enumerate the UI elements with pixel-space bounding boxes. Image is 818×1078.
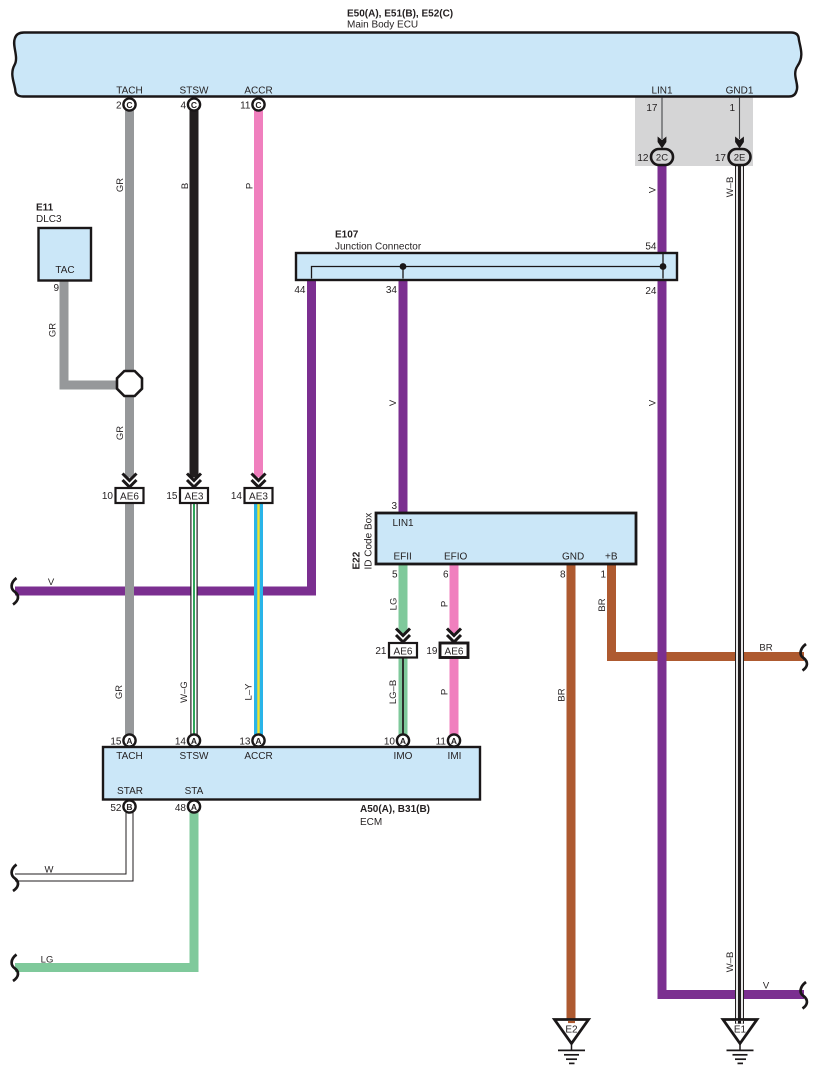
svg-text:ECM: ECM (360, 817, 382, 828)
svg-text:B: B (126, 802, 132, 812)
svg-text:14: 14 (231, 491, 243, 502)
svg-text:5: 5 (392, 570, 398, 581)
arrow into AE3 (B wire) (187, 474, 201, 488)
pin 11 circle A on ECM IMI (448, 734, 460, 746)
wire GR from E11 DLC3 pin 9 to junction (64, 279, 117, 385)
svg-text:E1: E1 (734, 1025, 747, 1036)
svg-text:LG–B: LG–B (388, 680, 399, 704)
wire B from ECU STSW pin 4 to arrow (190, 110, 199, 478)
svg-text:13: 13 (239, 737, 251, 748)
svg-text:ACCR: ACCR (244, 751, 272, 762)
connector oval 2E (729, 149, 751, 165)
wire V from ECU LIN1 pin through E107 pin 54/24 down and right off-page (662, 165, 804, 995)
arrow into AE6 (P wire) (447, 629, 461, 643)
svg-text:LIN1: LIN1 (651, 86, 673, 97)
svg-text:2: 2 (116, 101, 122, 112)
svg-text:E50(A), E51(B), E52(C): E50(A), E51(B), E52(C) (347, 9, 453, 20)
svg-text:A: A (451, 736, 457, 746)
svg-text:GND1: GND1 (726, 86, 754, 97)
svg-text:11: 11 (436, 737, 447, 748)
wire W-G from AE3 to ECM STSW pin 14 (190, 504, 197, 736)
svg-text:10: 10 (384, 737, 396, 748)
svg-text:C: C (255, 100, 261, 110)
svg-text:3: 3 (391, 501, 397, 512)
off-page break right V (801, 982, 807, 1009)
svg-text:E107: E107 (335, 230, 359, 241)
svg-text:BR: BR (557, 688, 568, 701)
off-page break right BR (801, 644, 807, 671)
pin 48 circle A on ECM STA (188, 800, 200, 812)
wire BR from E22 GND pin 8 to ground E2 (567, 564, 576, 1021)
svg-text:2E: 2E (734, 153, 746, 164)
svg-text:L–Y: L–Y (244, 683, 255, 701)
svg-text:A: A (191, 736, 197, 746)
svg-text:1: 1 (729, 103, 735, 114)
box E22 ID Code Box (376, 513, 636, 564)
connector box AE6 pin 19 (440, 643, 468, 658)
pin 13 circle A on ECM ACCR (252, 734, 264, 746)
svg-text:15: 15 (110, 737, 122, 748)
svg-text:STAR: STAR (117, 786, 143, 797)
svg-text:11: 11 (240, 101, 251, 112)
off-page break left V (12, 578, 18, 605)
svg-text:P: P (440, 601, 451, 607)
svg-text:STA: STA (185, 786, 204, 797)
box ECM A50/B31 (103, 747, 480, 800)
svg-text:BR: BR (597, 598, 608, 611)
svg-text:EFIO: EFIO (444, 552, 468, 563)
svg-text:1: 1 (600, 570, 606, 581)
svg-text:E2: E2 (565, 1025, 578, 1036)
connector box AE6 pin 21 (389, 643, 417, 658)
box E11 DLC3 (39, 228, 92, 281)
ground E1 (723, 1020, 757, 1064)
svg-text:21: 21 (375, 646, 387, 657)
wire L-Y from AE3 to ECM ACCR pin 13 (254, 504, 263, 736)
wire GR from AE6 to ECM TACH pin 15 (125, 504, 134, 736)
connector box AE3 pin 15 (180, 488, 208, 503)
pin 2 circle C on ECU TACH (123, 98, 135, 110)
svg-text:V: V (763, 981, 770, 992)
off-page break left W (12, 865, 18, 892)
ground E2 (555, 1020, 589, 1064)
arrow into AE6 (GR wire) (123, 474, 137, 488)
svg-text:V: V (388, 399, 399, 406)
svg-text:8: 8 (560, 570, 566, 581)
svg-text:AE6: AE6 (445, 647, 464, 658)
connector oval 2C (651, 149, 673, 165)
svg-text:GR: GR (115, 178, 126, 192)
wire V from E107 pin 44 down and left off-page (15, 279, 312, 591)
svg-text:V: V (648, 399, 659, 406)
svg-text:17: 17 (715, 153, 727, 164)
svg-text:A: A (126, 736, 132, 746)
svg-text:P: P (440, 689, 451, 695)
svg-text:2C: 2C (656, 153, 668, 164)
pin 4 circle C on ECU STSW (188, 98, 200, 110)
svg-text:48: 48 (175, 803, 187, 814)
junction octagon on GR wire (117, 371, 142, 396)
svg-text:W–B: W–B (725, 952, 736, 973)
svg-text:+B: +B (605, 552, 618, 563)
wire W-B from ECU GND1 via 2E to ground E1 (737, 165, 742, 1022)
svg-text:4: 4 (180, 101, 186, 112)
svg-text:15: 15 (166, 491, 178, 502)
svg-text:TAC: TAC (55, 265, 74, 276)
wire LG from ECM STA pin 48 down and left off-page (15, 811, 194, 968)
svg-text:AE6: AE6 (120, 492, 139, 503)
arrow into AE3 (P wire) (252, 474, 266, 488)
svg-text:52: 52 (110, 803, 122, 814)
svg-text:19: 19 (426, 646, 438, 657)
shaded connector block behind 2C/2E (635, 97, 753, 166)
wire LG from E22 EFII pin 5 to arrow (399, 564, 408, 633)
svg-text:LG: LG (389, 598, 400, 611)
svg-text:IMO: IMO (394, 751, 413, 762)
wire LG-B from AE6 to ECM IMO pin 10 (399, 657, 408, 735)
svg-text:C: C (126, 100, 132, 110)
svg-text:54: 54 (645, 242, 657, 253)
svg-text:9: 9 (53, 283, 59, 294)
svg-text:Main Body ECU: Main Body ECU (347, 20, 418, 31)
svg-text:E22: E22 (352, 551, 363, 569)
pin 11 circle C on ECU ACCR (252, 98, 264, 110)
svg-text:DLC3: DLC3 (36, 214, 62, 225)
svg-text:34: 34 (386, 285, 398, 296)
svg-text:E11: E11 (36, 203, 54, 214)
pin 14 circle A on ECM STSW (188, 734, 200, 746)
wire GR from ECU TACH pin 2 to arrow (125, 110, 134, 478)
svg-text:GR: GR (48, 323, 59, 337)
svg-text:17: 17 (646, 103, 658, 114)
svg-text:TACH: TACH (116, 86, 142, 97)
wire P from E22 EFIO pin 6 to arrow (450, 564, 459, 633)
ECU main body shape E50/E51/E52 (12, 33, 801, 97)
pin 15 circle A on ECM TACH (123, 734, 135, 746)
wire P from AE6 to ECM IMI pin 11 (450, 657, 459, 735)
connector E107 junction bar (296, 253, 677, 280)
connector box AE3 pin 14 (245, 488, 273, 503)
svg-text:W–G: W–G (179, 681, 190, 703)
svg-text:A: A (255, 736, 261, 746)
svg-text:GND: GND (562, 552, 584, 563)
svg-text:W: W (45, 865, 54, 876)
wire BR from E22 +B pin 1 down and right off-page (612, 564, 805, 657)
svg-text:GR: GR (115, 426, 126, 440)
pin line GND1 1 with arrow to 2E (735, 98, 744, 149)
svg-text:IMI: IMI (448, 751, 462, 762)
svg-text:ID Code Box: ID Code Box (364, 513, 375, 570)
off-page break left LG (12, 955, 18, 982)
svg-text:STSW: STSW (180, 86, 209, 97)
svg-text:STSW: STSW (180, 751, 209, 762)
wire P from ECU ACCR pin 11 to arrow (254, 110, 263, 478)
svg-text:TACH: TACH (116, 751, 142, 762)
svg-text:BR: BR (759, 643, 772, 654)
svg-text:44: 44 (294, 285, 306, 296)
svg-text:V: V (648, 186, 659, 193)
svg-text:B: B (180, 183, 191, 189)
svg-text:GR: GR (114, 685, 125, 699)
svg-text:AE3: AE3 (185, 492, 204, 503)
svg-text:W–B: W–B (725, 177, 736, 198)
pin 52 circle B on ECM STAR (123, 800, 135, 812)
svg-text:AE6: AE6 (394, 647, 413, 658)
svg-text:6: 6 (443, 570, 449, 581)
svg-text:V: V (48, 577, 55, 588)
connector box AE6 pin 10 (116, 488, 144, 503)
svg-text:Junction Connector: Junction Connector (335, 242, 422, 253)
svg-text:12: 12 (637, 153, 649, 164)
svg-text:A50(A), B31(B): A50(A), B31(B) (360, 804, 430, 815)
pin 10 circle A on ECM IMO (397, 734, 409, 746)
svg-text:LG: LG (41, 955, 54, 966)
pin line LIN1 17 with arrow to 2C (658, 98, 667, 149)
svg-text:ACCR: ACCR (244, 86, 272, 97)
arrow into AE6 (LG wire) (396, 629, 410, 643)
svg-text:AE3: AE3 (249, 492, 268, 503)
svg-text:A: A (191, 802, 197, 812)
svg-text:EFII: EFII (394, 552, 412, 563)
svg-text:LIN1: LIN1 (393, 518, 415, 529)
svg-text:14: 14 (175, 737, 187, 748)
svg-text:10: 10 (102, 491, 114, 502)
wire V from E107 pin 34 to E22 pin 3 (399, 279, 408, 514)
svg-text:A: A (400, 736, 406, 746)
svg-text:C: C (191, 100, 197, 110)
wire W from ECM STAR pin 52 down and left off-page (15, 811, 130, 878)
svg-text:24: 24 (645, 286, 657, 297)
svg-text:P: P (245, 183, 256, 189)
